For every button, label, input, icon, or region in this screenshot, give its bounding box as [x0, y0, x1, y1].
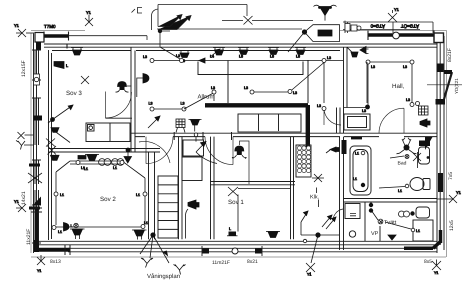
window post top-left thick bar: [44, 34, 69, 37]
wall top inner face: [52, 50, 340, 52]
svg-text:Sov 1: Sov 1: [228, 199, 244, 206]
svg-text:Hall,: Hall,: [392, 83, 405, 90]
svg-text:L: L: [229, 227, 231, 231]
laundry wire: [385, 222, 411, 229]
wire to corner switch: [26, 32, 34, 34]
wall sov1 north: [211, 182, 296, 185]
svg-text:L1: L1: [136, 193, 140, 197]
allrum arrow left: [148, 116, 160, 128]
svg-text:ÅTG=ÖT: ÅTG=ÖT: [401, 24, 419, 29]
svg-text:L3: L3: [327, 56, 331, 60]
sov2 lamp bottom-right: [134, 230, 145, 236]
hall lamp wall left: [360, 47, 366, 54]
svg-text:L1: L1: [60, 193, 64, 197]
right bottom switch: [432, 260, 441, 271]
bath corner wedge: [425, 137, 433, 150]
svg-text:Y1: Y1: [456, 190, 462, 195]
small circle bottom: [303, 239, 306, 242]
closet shelves between stairs and sov1: [183, 140, 204, 156]
wall left outer: [34, 34, 37, 254]
lamp hall top: [347, 47, 358, 57]
svg-text:Y1: Y1: [394, 7, 400, 12]
sov2 octagon wiring: [56, 161, 145, 227]
wall lamp sov3 top: [54, 62, 64, 69]
klk tick: [317, 188, 319, 208]
outlet box on left wall: [34, 74, 40, 85]
svg-text:L3: L3: [176, 54, 180, 58]
svg-text:Y1: Y1: [14, 23, 20, 28]
svg-text:L1: L1: [398, 189, 402, 193]
serifs top-right bar: [368, 31, 434, 41]
interior wall sov3 east: [131, 47, 135, 152]
sov2 speaker left: [64, 223, 70, 232]
wire to door switch: [427, 84, 462, 86]
stairs: [158, 176, 178, 238]
door arc sov3: [106, 92, 132, 119]
right wall window sill black: [436, 99, 446, 105]
svg-text:ÅTG=0: ÅTG=0: [370, 24, 385, 29]
svg-text:L3: L3: [143, 55, 147, 59]
arrow on vaningsplan line: [163, 251, 168, 256]
sov2 switch left wall a: [18, 132, 34, 139]
interior wall sov2 east: [149, 152, 155, 239]
pendant lamp: [87, 155, 97, 161]
smoke detector / fan upper: [314, 5, 337, 20]
bath fan: [397, 138, 417, 154]
wire bar to top-left window: [69, 36, 148, 40]
wire drop into allrum: [157, 29, 180, 59]
svg-text:L6: L6: [270, 55, 274, 59]
wall lamp sov3 b: [51, 155, 60, 160]
interior wall mid horizontal (sov3/sov2): [49, 149, 161, 153]
door arc allrum-left: [146, 137, 173, 164]
switch vaningsplan a: [141, 258, 153, 268]
svg-text:12x5: 12x5: [449, 220, 455, 231]
left wall window tick b: [29, 207, 40, 210]
left wall solid segments: [37, 42, 39, 252]
wall bottom lower pair right half: [68, 248, 437, 252]
wall sov1 east / klk west: [291, 137, 294, 240]
kitchen counter strip left: [240, 141, 250, 184]
wall stairs east: [179, 137, 183, 240]
switch Y1 top-right: [388, 10, 397, 22]
svg-text:L6: L6: [239, 55, 243, 59]
bath cabinet: [419, 141, 430, 147]
svg-text:L1: L1: [58, 230, 62, 234]
bath outlet: [405, 155, 409, 159]
svg-text:L1: L1: [353, 177, 357, 181]
vaningsplan wires: [140, 235, 169, 263]
bottom junction: [316, 233, 320, 237]
svg-text:L3: L3: [406, 98, 410, 102]
sov2 switch left wall b: [16, 141, 34, 150]
svg-text:12x15F: 12x15F: [21, 60, 27, 77]
wall sov1 west: [211, 137, 215, 240]
sov1 switch X: [228, 187, 238, 196]
svg-text:L: L: [71, 224, 73, 228]
svg-text:8x13: 8x13: [50, 259, 61, 265]
svg-text:L3: L3: [149, 102, 153, 106]
wall right pair: [437, 34, 444, 254]
speaker allrum west: [143, 74, 149, 84]
chimney hatch: [296, 145, 311, 177]
wall kitchen/hall divider: [337, 47, 348, 133]
hall dresser: [344, 114, 370, 130]
banner callout with black bar: [288, 25, 340, 52]
wire upper horizontal right: [345, 21, 348, 33]
bottom-left switch: [37, 255, 45, 265]
wire upper loop left: [152, 5, 303, 31]
thick wall kitchen L: [205, 105, 308, 148]
svg-text:Klk.: Klk.: [310, 195, 320, 201]
wall top outer pair: [44, 44, 437, 47]
allrum L3 single: [212, 90, 216, 94]
sov2 lamp bottom-left: [72, 229, 83, 235]
down arrow symbol: [124, 157, 132, 164]
lamp L6 b: [268, 48, 279, 59]
interior wall middle long (allrum south): [131, 133, 437, 136]
svg-text:L3: L3: [211, 86, 215, 90]
switch bottom Y1: [306, 263, 315, 276]
svg-text:VP: VP: [371, 231, 379, 237]
allrum counter rect: [198, 60, 308, 103]
door arc allrum-right: [205, 137, 233, 165]
allrum lower wire pair: [252, 63, 324, 93]
laundry L1: [411, 228, 415, 232]
switch left wall corner: [16, 29, 26, 37]
svg-text:L1: L1: [113, 166, 117, 170]
pendant lamp sov3 door: [116, 82, 132, 93]
thick bar above tub: [351, 137, 362, 140]
tub outlet L1 bottom: [361, 183, 365, 187]
svg-text:8x21: 8x21: [247, 259, 258, 265]
wire hall drop: [366, 62, 368, 103]
sov2 lamp point symbol: [74, 223, 78, 227]
wall laundry north: [344, 199, 438, 203]
lamp L6 a: [238, 48, 249, 59]
wire top-right to corner: [343, 22, 433, 33]
toilet outlet: [405, 184, 409, 188]
svg-text:L3: L3: [244, 86, 248, 90]
left wall junction box: [34, 116, 43, 121]
svg-text:L1: L1: [416, 229, 420, 233]
toilet: [410, 178, 424, 191]
left wall door X: [28, 173, 42, 183]
bathtub: [350, 146, 371, 195]
small box left of pendant: [78, 156, 86, 160]
svg-text:Allrum: Allrum: [198, 94, 215, 101]
junction mid: [126, 148, 130, 152]
svg-text:Y1: Y1: [434, 271, 438, 275]
wall klk east: [340, 137, 344, 250]
allrum mid wire L3-L3: [152, 108, 184, 110]
right wall black box window junction: [437, 64, 444, 73]
laundry bench: [413, 220, 433, 241]
small circle on wall: [194, 133, 198, 137]
eaves outline: [31, 31, 447, 258]
switch sov3 mid: [81, 76, 89, 84]
door arc kitchen: [324, 108, 341, 125]
svg-text:T7M0: T7M0: [44, 24, 56, 29]
svg-text:8x21F: 8x21F: [447, 48, 453, 62]
left wall window tick a: [29, 164, 40, 167]
left wall window serifs: [32, 50, 41, 243]
kitchen switch X: [312, 174, 324, 182]
laundry washing machine: [345, 204, 360, 219]
wardrobe sov3: [86, 123, 130, 142]
svg-text:Y1: Y1: [14, 199, 20, 204]
bottom wall window bar: [202, 249, 209, 254]
wall left inner face: [49, 50, 52, 240]
lamp L3 allrum1: [179, 51, 190, 64]
tub outlet L1 top: [361, 151, 365, 155]
svg-text:L3: L3: [293, 91, 297, 95]
kitchen L3 below wall: [322, 107, 326, 111]
door posts mid wall: [174, 132, 231, 140]
hall speaker: [420, 119, 430, 127]
svg-text:L1: L1: [355, 152, 359, 156]
door arc klk: [333, 209, 343, 221]
arrow L4: [210, 49, 220, 57]
bracket symbol upper-left: [132, 8, 143, 14]
bottom-right corner thick: [404, 230, 441, 248]
door wedge left wall: [33, 197, 41, 206]
svg-text:7x5: 7x5: [448, 172, 454, 180]
junction upper feed: [158, 29, 162, 33]
sov2 switch left wall c: [16, 204, 26, 212]
lintel over wardrobe: [106, 117, 133, 119]
corner post top-left: [35, 33, 44, 43]
svg-text:Y1: Y1: [37, 269, 41, 273]
wall lamp sov3 a: [51, 128, 59, 133]
allrum wire row under top wall: [152, 60, 343, 62]
thick black bar bath west: [342, 140, 347, 154]
svg-text:Y1: Y1: [307, 273, 311, 277]
lamp L6 c: [295, 48, 306, 59]
svg-text:Y1: Y1: [86, 10, 92, 15]
arrows upper pair: [158, 15, 191, 30]
outlet circles GG: [99, 159, 106, 166]
kitchen wall lamp: [330, 147, 339, 152]
sov1 wires: [238, 189, 290, 232]
laundry outlets: [399, 211, 405, 217]
left wall window mid lines: [35, 50, 39, 243]
wall bottom pair: [36, 241, 437, 245]
svg-text:11m21F: 11m21F: [212, 260, 230, 266]
right outside switch mid: [437, 195, 457, 203]
svg-text:L3: L3: [362, 109, 366, 113]
junction sov3: [51, 118, 55, 122]
switch Y1 top-left: [85, 10, 93, 26]
switch vaningsplan b: [174, 265, 186, 275]
allrum L3 right top: [322, 59, 326, 63]
svg-text:L6: L6: [296, 55, 300, 59]
svg-text:L3: L3: [181, 102, 185, 106]
lamp L4 allrum2: [210, 48, 225, 59]
svg-text:Våningsplan: Våningsplan: [147, 273, 180, 280]
switch top mid: [222, 16, 313, 25]
svg-text:L1: L1: [144, 221, 148, 225]
svg-text:14x21: 14x21: [21, 191, 27, 205]
door arc hall-bath: [379, 108, 404, 133]
arrow bottom a: [301, 211, 308, 222]
svg-text:L3: L3: [403, 65, 407, 69]
sov1 lamp bottom: [268, 232, 278, 238]
switch X sov3 door: [46, 139, 55, 147]
VP closet: [365, 202, 380, 241]
door arc sov2: [139, 142, 170, 163]
svg-text:L1: L1: [81, 166, 85, 170]
svg-text:Tvätt: Tvätt: [384, 220, 397, 226]
sov1 lamp bottom b: [229, 232, 237, 236]
VP cup: [388, 235, 396, 240]
svg-text:8x5: 8x5: [424, 259, 432, 265]
kitchen counter row: [238, 114, 301, 132]
allrum lamp at wall: [191, 120, 200, 126]
svg-text:L: L: [66, 64, 68, 68]
hall heater: [419, 106, 429, 115]
svg-text:L3: L3: [317, 104, 321, 108]
bath switch: [413, 152, 421, 168]
right wall black segment: [438, 173, 443, 192]
svg-text:Sov 2: Sov 2: [100, 196, 116, 203]
lamp L4 sov3: [71, 48, 83, 56]
window post top-right thick bar: [368, 33, 434, 37]
window post serifs top-left: [44, 32, 69, 49]
junction sov2 bottom-right: [151, 233, 155, 237]
hall wire loop: [368, 62, 412, 105]
right wall door swing: [444, 72, 452, 99]
svg-text:YD(X21: YD(X21: [454, 78, 459, 94]
svg-text:Bad: Bad: [398, 161, 407, 167]
svg-text:L3: L3: [371, 65, 375, 69]
arrow bottom double: [322, 215, 336, 229]
svg-text:Sov 3: Sov 3: [66, 90, 82, 97]
svg-text:11x21F: 11x21F: [26, 229, 32, 245]
dots on wall: [369, 203, 373, 207]
sov1 arrow: [196, 142, 206, 153]
top-right wall unit: [345, 24, 350, 32]
column circle on top-right wall: [393, 32, 400, 39]
bottom-left corner thick: [35, 208, 70, 250]
stairs speaker: [188, 200, 199, 209]
top-right corner post: [434, 33, 444, 43]
sov1 pendant lamp: [232, 146, 247, 159]
laundry sink: [416, 207, 430, 218]
allrum heater: [176, 119, 185, 128]
tvatt outlet symbol: [378, 219, 383, 224]
